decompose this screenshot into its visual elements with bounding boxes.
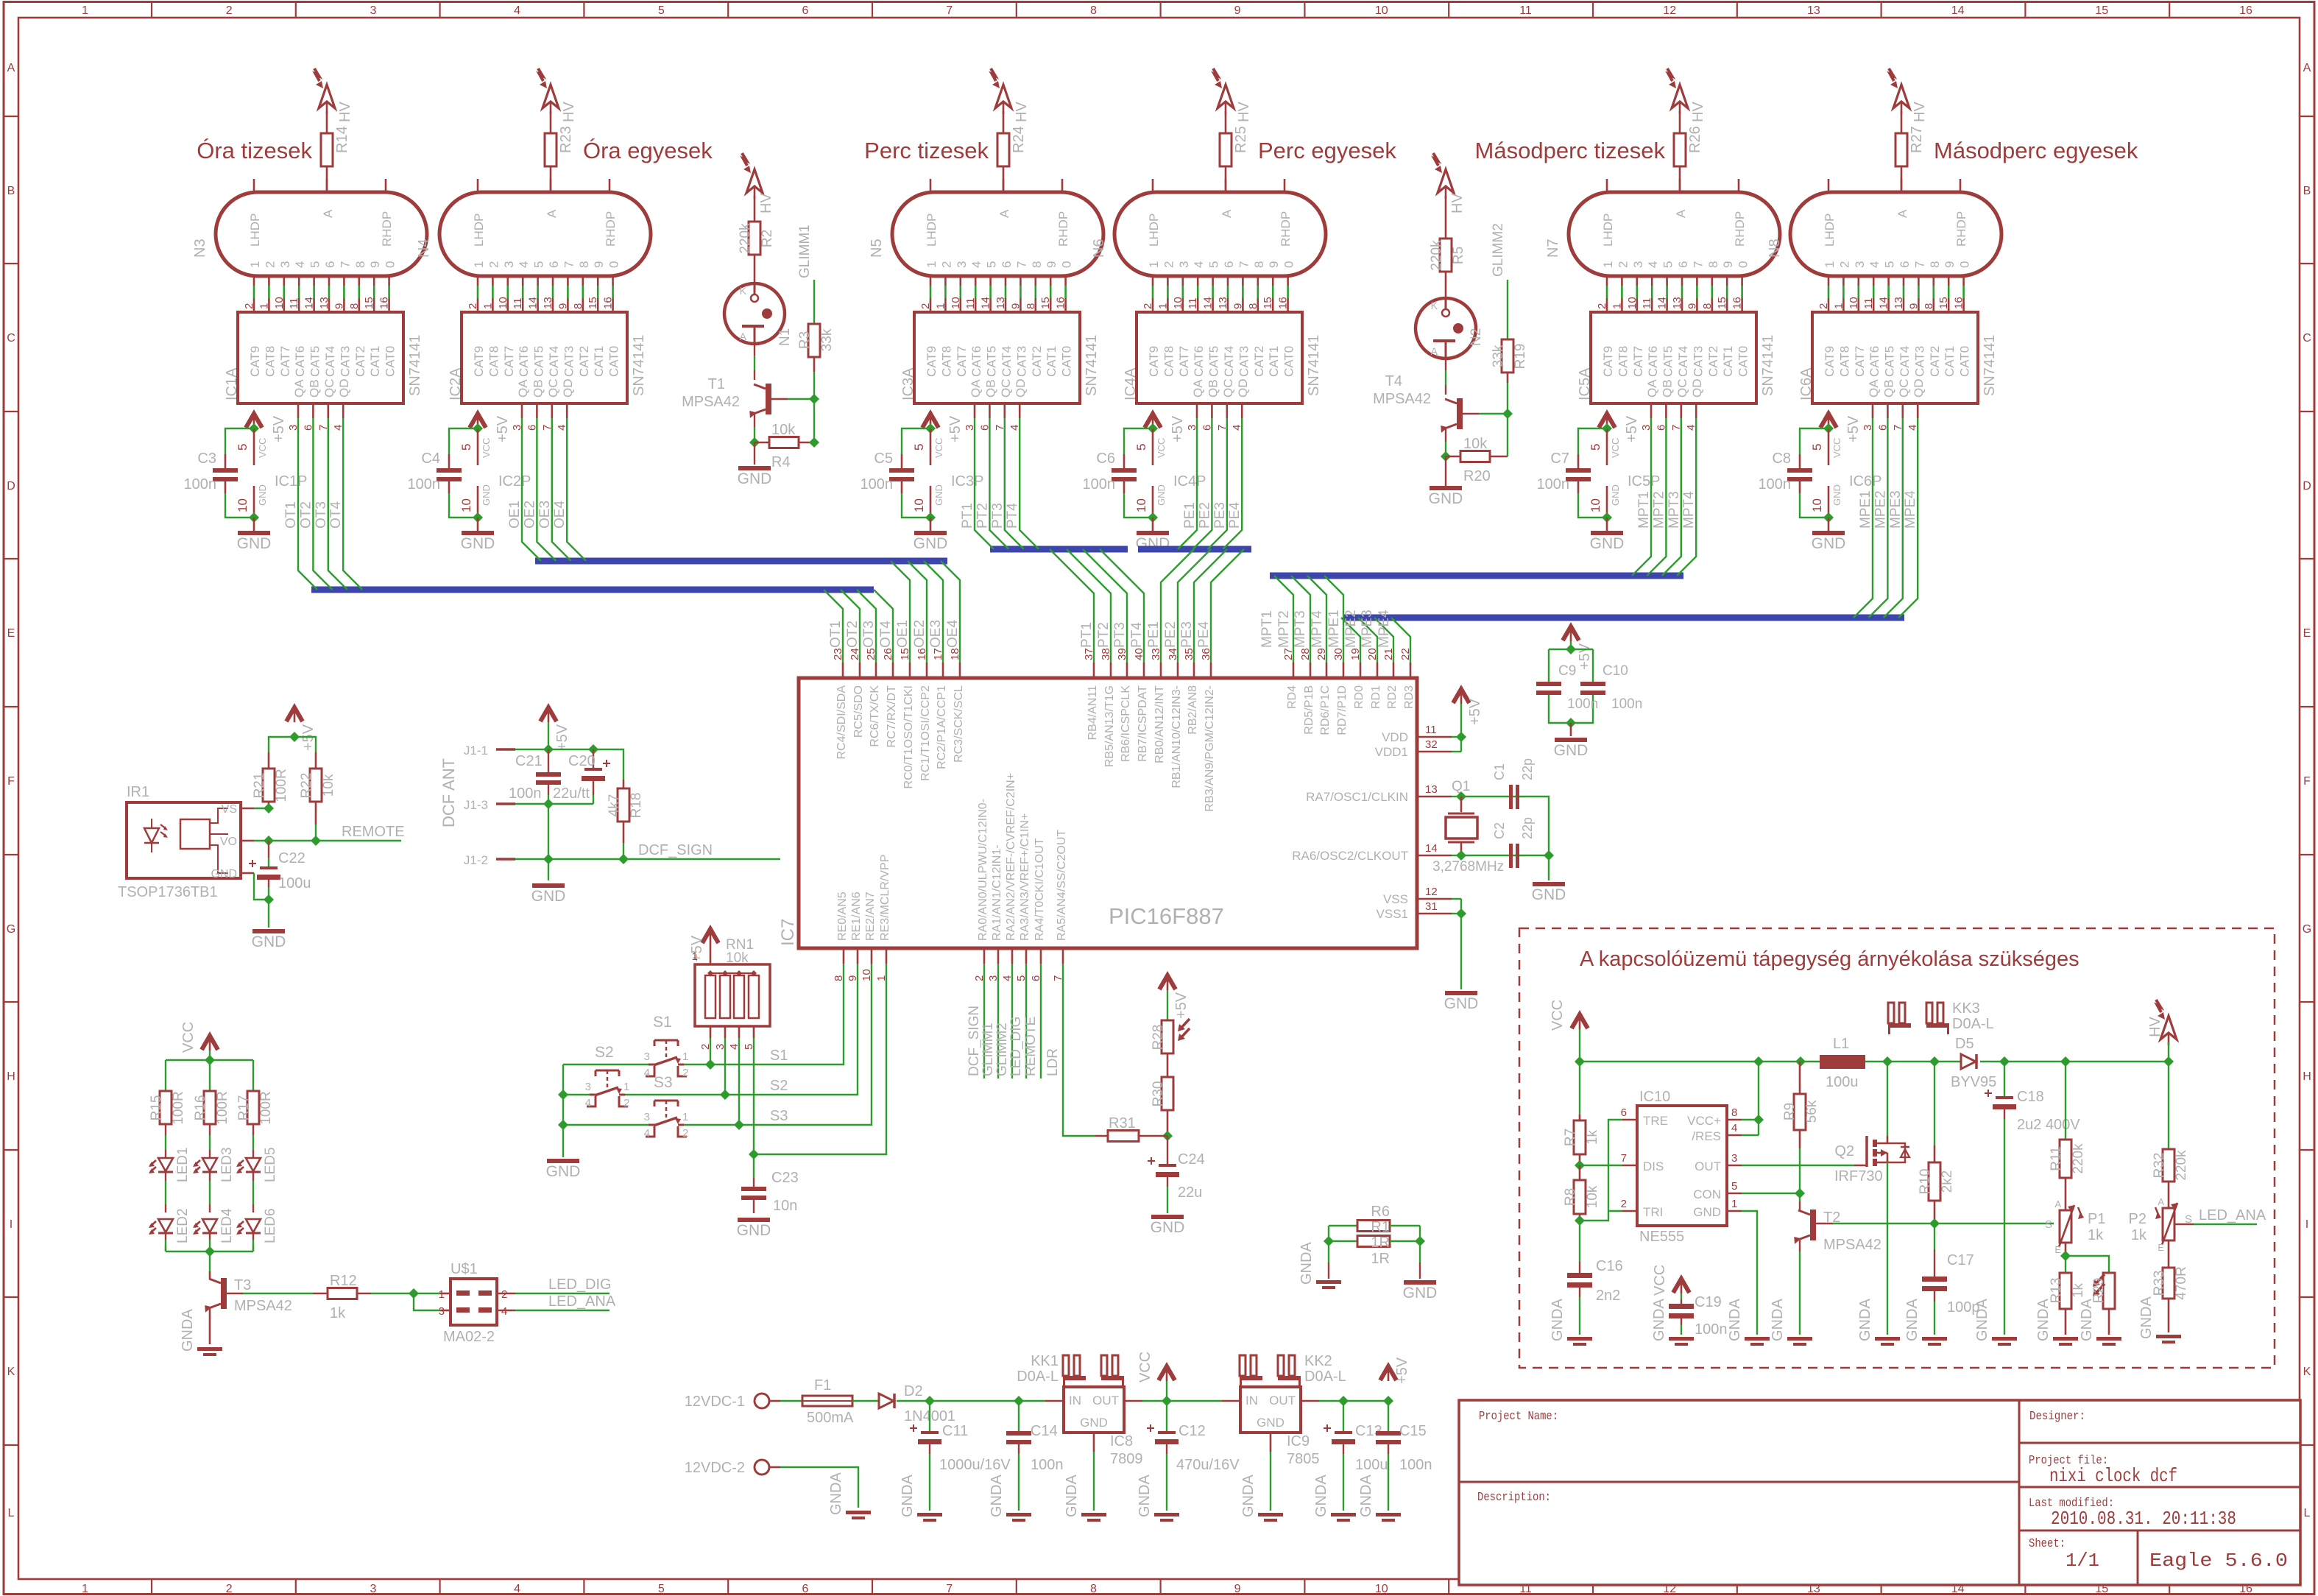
svg-text:PT3: PT3 — [1112, 622, 1128, 648]
svg-text:K: K — [1431, 300, 1438, 311]
svg-text:VCC: VCC — [1831, 438, 1842, 458]
svg-text:1: 1 — [1832, 303, 1845, 309]
ground GND below VSS — [1445, 991, 1477, 995]
svg-text:S2: S2 — [595, 1044, 614, 1061]
svg-text:33k: 33k — [819, 328, 835, 351]
svg-text:10k: 10k — [321, 774, 336, 797]
transistor T4 MPSA42 — [1457, 398, 1463, 429]
svg-text:1: 1 — [1731, 1198, 1737, 1210]
svg-text:G: G — [7, 923, 15, 936]
svg-text:MPT1: MPT1 — [1636, 491, 1652, 529]
ground GNDA below IC8 — [1081, 1513, 1106, 1516]
svg-text:N1: N1 — [777, 328, 793, 346]
ground GNDA below C13 — [1331, 1513, 1356, 1516]
svg-text:QB: QB — [1881, 379, 1895, 398]
svg-text:11: 11 — [1187, 297, 1199, 309]
svg-text:MPSA42: MPSA42 — [682, 394, 740, 410]
svg-text:OUT: OUT — [1092, 1394, 1119, 1408]
svg-text:LED3: LED3 — [219, 1147, 235, 1182]
svg-text:5: 5 — [532, 261, 546, 268]
svg-text:E: E — [2158, 1242, 2164, 1253]
svg-text:8: 8 — [1923, 303, 1935, 309]
ground GNDA below R29 — [2096, 1337, 2121, 1341]
svg-text:REMOTE: REMOTE — [342, 824, 405, 840]
svg-text:RD6/P1C: RD6/P1C — [1319, 685, 1332, 735]
svg-text:39: 39 — [1116, 648, 1128, 660]
wire OUT to Q2 gate — [1742, 1165, 1854, 1166]
svg-text:CAT5: CAT5 — [985, 346, 999, 377]
svg-text:R31: R31 — [1109, 1115, 1136, 1131]
svg-text:C: C — [2303, 332, 2311, 345]
svg-text:F: F — [7, 775, 15, 788]
svg-text:LED1: LED1 — [175, 1147, 191, 1182]
svg-text:C20: C20 — [568, 753, 596, 769]
svg-text:OUT: OUT — [1269, 1394, 1296, 1408]
LED LED3 — [209, 1124, 211, 1135]
svg-text:Q2: Q2 — [1834, 1143, 1854, 1159]
wire VDD to +5V — [1460, 704, 1462, 752]
wire C9 C10 rails — [1570, 641, 1572, 649]
svg-text:SN74141: SN74141 — [631, 335, 647, 396]
wire TRE TRI to R8 node — [1608, 1120, 1622, 1211]
svg-text:2: 2 — [1817, 303, 1830, 309]
svg-text:PT2: PT2 — [1096, 622, 1112, 648]
svg-text:IR1: IR1 — [127, 784, 149, 800]
svg-text:3: 3 — [502, 261, 516, 268]
power symbol HV (N6 anode) — [1218, 85, 1234, 108]
svg-text:CAT1: CAT1 — [1045, 346, 1059, 377]
svg-text:5: 5 — [658, 1583, 665, 1595]
svg-text:CAT0: CAT0 — [607, 346, 621, 377]
svg-text:10: 10 — [1172, 297, 1184, 309]
svg-text:Másodperc tizesek: Másodperc tizesek — [1475, 138, 1666, 163]
svg-text:RHDP: RHDP — [1056, 211, 1070, 247]
wire IC10 GND pin1 to GNDA — [1742, 1211, 1757, 1335]
svg-text:R28: R28 — [1151, 1025, 1166, 1051]
svg-text:10k: 10k — [726, 950, 749, 966]
svg-text:C17: C17 — [1947, 1252, 1974, 1268]
svg-text:VCC: VCC — [1137, 1352, 1153, 1383]
capacitor C4 100n — [449, 428, 478, 454]
svg-text:IN: IN — [1245, 1394, 1258, 1408]
nixie tube N7 — [1569, 192, 1780, 276]
tube N7 digit pins and wires to driver — [1606, 276, 1608, 286]
svg-text:100n: 100n — [509, 785, 542, 802]
svg-text:1: 1 — [682, 1051, 688, 1063]
svg-text:3: 3 — [1731, 1152, 1737, 1165]
svg-text:CAT8: CAT8 — [487, 346, 501, 377]
svg-text:2: 2 — [1142, 303, 1154, 309]
MOSFET Q2 IRF730 — [1865, 1136, 1868, 1167]
svg-text:16: 16 — [602, 297, 615, 309]
svg-text:13: 13 — [994, 297, 1007, 309]
svg-text:QD: QD — [561, 379, 575, 398]
svg-text:OE1: OE1 — [895, 620, 911, 648]
transistor T2 MPSA42 — [1810, 1210, 1816, 1240]
svg-text:5: 5 — [985, 261, 999, 268]
svg-text:QA: QA — [1867, 379, 1881, 398]
svg-text:PE3: PE3 — [1212, 502, 1228, 529]
svg-text:CAT2: CAT2 — [1030, 346, 1044, 377]
LED LED4 — [209, 1172, 211, 1181]
svg-text:2: 2 — [1621, 1198, 1627, 1210]
svg-text:5: 5 — [1589, 444, 1603, 451]
svg-text:9: 9 — [1943, 261, 1957, 268]
svg-text:RC3/SCK/SCL: RC3/SCK/SCL — [953, 685, 965, 763]
svg-text:A: A — [1895, 209, 1909, 218]
wire LED_DIG net — [497, 1293, 515, 1295]
svg-text:B: B — [7, 185, 15, 197]
svg-text:GLIMM2: GLIMM2 — [1491, 223, 1506, 277]
svg-text:CAT4: CAT4 — [1000, 346, 1014, 377]
resistor R17 100R — [247, 1091, 259, 1124]
svg-text:10k: 10k — [1463, 436, 1488, 452]
svg-text:RA1/AN1/C12IN1-: RA1/AN1/C12IN1- — [991, 844, 1003, 941]
svg-text:6: 6 — [547, 261, 561, 268]
svg-text:2: 2 — [1162, 261, 1176, 268]
svg-text:Perc tizesek: Perc tizesek — [864, 138, 989, 163]
svg-text:CAT7: CAT7 — [1177, 346, 1191, 377]
svg-text:PE2: PE2 — [1197, 502, 1212, 529]
svg-text:10: 10 — [236, 498, 250, 512]
svg-text:LED6: LED6 — [263, 1208, 278, 1243]
svg-text:+5V: +5V — [1577, 643, 1593, 670]
svg-text:7: 7 — [338, 261, 352, 268]
svg-text:100n: 100n — [1031, 1457, 1064, 1473]
svg-text:CAT7: CAT7 — [278, 346, 292, 377]
svg-text:CAT5: CAT5 — [532, 346, 546, 377]
RN1 bottom pins — [710, 1026, 712, 1038]
svg-text:9: 9 — [1721, 261, 1735, 268]
svg-text:R30: R30 — [1151, 1081, 1166, 1107]
svg-text:RA4/T0CKI/C1OUT: RA4/T0CKI/C1OUT — [1033, 838, 1046, 941]
svg-text:C18: C18 — [2017, 1089, 2044, 1105]
capacitor C12 470u/16V — [1166, 1401, 1167, 1431]
svg-text:SN74141: SN74141 — [407, 335, 423, 396]
svg-text:3: 3 — [1853, 261, 1867, 268]
svg-text:R21: R21 — [252, 773, 267, 799]
microcontroller IC7 PIC16F887 — [799, 678, 1417, 948]
tube N7 top pins LHDP/A/RHDP — [1606, 179, 1608, 192]
svg-text:OE2: OE2 — [522, 501, 537, 529]
svg-text:CAT0: CAT0 — [1060, 346, 1074, 377]
svg-text:CAT0: CAT0 — [1282, 346, 1296, 377]
driver IC IC4A SN74141 — [1137, 312, 1302, 403]
svg-text:CAT4: CAT4 — [1898, 346, 1912, 377]
svg-text:N7: N7 — [1545, 239, 1561, 258]
power symbol HV (N8 anode) — [1893, 85, 1909, 108]
svg-text:22u: 22u — [1178, 1184, 1202, 1201]
svg-text:PE1: PE1 — [1182, 502, 1198, 529]
svg-text:9: 9 — [1234, 4, 1241, 17]
svg-text:CAT6: CAT6 — [1868, 346, 1881, 377]
svg-text:R10: R10 — [1918, 1169, 1933, 1195]
svg-text:R20: R20 — [1463, 468, 1491, 484]
ground GND under IC2P — [473, 512, 483, 523]
svg-text:1: 1 — [925, 261, 939, 268]
svg-text:SN74141: SN74141 — [1084, 335, 1100, 396]
svg-text:1k: 1k — [1585, 1129, 1600, 1145]
svg-text:A: A — [545, 209, 559, 218]
svg-text:VCC: VCC — [481, 438, 492, 458]
svg-text:R8: R8 — [1563, 1188, 1578, 1206]
svg-text:8: 8 — [348, 303, 361, 309]
svg-text:RC2/P1A/CCP1: RC2/P1A/CCP1 — [936, 685, 948, 769]
driver IC IC6A SN74141 — [1812, 312, 1978, 403]
svg-text:CAT2: CAT2 — [1928, 346, 1942, 377]
timer IC10 NE555 — [1637, 1106, 1727, 1226]
svg-text:Perc egyesek: Perc egyesek — [1258, 138, 1396, 163]
svg-text:2: 2 — [467, 303, 479, 309]
resistor R18 4k7 — [623, 780, 625, 788]
svg-text:R3: R3 — [797, 331, 813, 349]
svg-text:VCC: VCC — [1610, 438, 1621, 458]
svg-text:6: 6 — [1000, 261, 1014, 268]
svg-text:R9: R9 — [1782, 1103, 1798, 1120]
svg-text:MPE1: MPE1 — [1326, 610, 1342, 648]
svg-text:PE3: PE3 — [1179, 621, 1195, 648]
wires PE1-PE4 from bus to PIC — [1161, 549, 1194, 663]
svg-text:LHDP: LHDP — [925, 213, 939, 247]
svg-text:GND: GND — [933, 484, 944, 506]
wire switch common rail — [562, 1064, 564, 1157]
ground GNDA at 12VDC-2 — [846, 1511, 871, 1514]
svg-text:C16: C16 — [1596, 1258, 1623, 1274]
svg-text:OT2: OT2 — [298, 501, 314, 529]
svg-text:A: A — [1674, 209, 1688, 218]
svg-text:QB: QB — [983, 379, 997, 398]
svg-text:100n: 100n — [1083, 476, 1116, 492]
svg-text:15: 15 — [363, 297, 375, 309]
svg-text:2: 2 — [487, 261, 501, 268]
svg-text:D2: D2 — [904, 1383, 923, 1399]
svg-text:SN74141: SN74141 — [1306, 335, 1322, 396]
driver IC4A output pins QA-QD — [1196, 403, 1198, 418]
svg-text:QA: QA — [1191, 379, 1205, 398]
wires PT1-PT4 from IC3A to bus — [975, 418, 994, 549]
svg-text:15: 15 — [587, 297, 599, 309]
svg-text:GND: GND — [1444, 995, 1479, 1012]
svg-text:QB: QB — [531, 379, 545, 398]
capacitor C14 100n — [1018, 1401, 1020, 1431]
svg-text:CAT8: CAT8 — [263, 346, 277, 377]
resistor R21 100R — [268, 752, 270, 769]
svg-text:11: 11 — [512, 297, 524, 309]
svg-text:QD: QD — [1236, 379, 1250, 398]
svg-text:8: 8 — [1928, 261, 1942, 268]
power pins IC6P with +5V and GND — [1820, 414, 1837, 428]
svg-text:PT3: PT3 — [990, 503, 1006, 529]
svg-text:GND: GND — [1590, 535, 1625, 552]
svg-text:0: 0 — [1282, 261, 1296, 268]
svg-text:220k: 220k — [738, 223, 753, 254]
svg-text:1: 1 — [1601, 261, 1615, 268]
svg-text:MPT4: MPT4 — [1310, 610, 1325, 648]
driver IC IC5A SN74141 — [1591, 312, 1756, 403]
ground GNDA below C19 — [1669, 1337, 1694, 1341]
svg-text:Másodperc egyesek: Másodperc egyesek — [1934, 138, 2138, 163]
svg-text:27: 27 — [1282, 648, 1295, 660]
svg-text:LHDP: LHDP — [472, 213, 486, 247]
svg-text:C5: C5 — [874, 451, 893, 467]
wire PSU top rail — [1580, 1061, 1820, 1062]
svg-text:9: 9 — [1686, 303, 1698, 309]
svg-text:D: D — [2303, 480, 2311, 492]
svg-text:CAT3: CAT3 — [1912, 346, 1926, 377]
svg-text:T3: T3 — [234, 1277, 251, 1293]
neon lamp N2 — [1416, 298, 1476, 359]
svg-text:33k: 33k — [1491, 345, 1506, 367]
resistor R23 220k anode — [550, 111, 552, 133]
svg-text:220k: 220k — [2174, 1150, 2189, 1181]
svg-text:LHDP: LHDP — [248, 213, 262, 247]
svg-text:GNDA: GNDA — [2138, 1296, 2155, 1339]
svg-text:14: 14 — [1425, 842, 1438, 855]
svg-text:11: 11 — [1641, 297, 1653, 309]
svg-text:QC: QC — [1897, 379, 1911, 398]
svg-text:8: 8 — [1030, 261, 1044, 268]
svg-text:C9: C9 — [1558, 663, 1576, 679]
resistor R16 100R — [204, 1091, 216, 1124]
driver IC3A output pins QA-QD — [974, 403, 976, 418]
power symbol HV (N3 anode) — [319, 85, 335, 108]
svg-text:100u: 100u — [1355, 1457, 1388, 1473]
svg-text:12: 12 — [1425, 886, 1438, 898]
svg-text:A: A — [997, 209, 1011, 218]
wire R12 to U$1 — [371, 1293, 414, 1294]
ground GND below C22 — [252, 929, 285, 933]
power VCC arrow — [1159, 1366, 1175, 1380]
svg-text:RHDP: RHDP — [380, 211, 394, 247]
svg-text:PT1: PT1 — [1079, 622, 1095, 648]
svg-text:17: 17 — [932, 648, 944, 660]
resistor R8 10k — [1579, 1165, 1581, 1180]
svg-text:Designer:: Designer: — [2029, 1410, 2085, 1424]
svg-text:9: 9 — [1232, 303, 1244, 309]
svg-text:N3: N3 — [192, 239, 208, 258]
svg-text:C: C — [7, 332, 15, 345]
svg-text:7: 7 — [1912, 261, 1926, 268]
svg-text:4: 4 — [514, 4, 520, 17]
LED LED1 — [165, 1124, 166, 1135]
wires MPT1-MPT4 from IC5A to bus — [1632, 418, 1651, 576]
nixie tube N3 — [216, 192, 427, 276]
svg-text:U$1: U$1 — [450, 1261, 478, 1277]
wire IC8 out to IC9 — [1142, 1400, 1222, 1402]
svg-text:QD: QD — [337, 379, 351, 398]
svg-text:10: 10 — [1626, 297, 1639, 309]
svg-text:RD7/P1D: RD7/P1D — [1336, 685, 1349, 735]
svg-text:10: 10 — [1589, 498, 1603, 512]
svg-text:H: H — [2303, 1070, 2311, 1083]
svg-text:HV: HV — [2147, 1016, 2163, 1037]
svg-text:6: 6 — [802, 4, 809, 17]
wires PT1-PT4 from bus to PIC — [1050, 549, 1094, 663]
svg-text:GND: GND — [211, 868, 237, 880]
svg-text:A: A — [7, 62, 15, 74]
ground GNDA below R13 — [2053, 1337, 2078, 1341]
svg-text:RE0/AN5: RE0/AN5 — [836, 891, 849, 941]
svg-text:RA6/OSC2/CLKOUT: RA6/OSC2/CLKOUT — [1292, 849, 1408, 863]
svg-text:KK3: KK3 — [1952, 1000, 1980, 1017]
resistor network RN1 10k — [695, 964, 770, 1026]
svg-text:14: 14 — [980, 297, 992, 309]
svg-text:CAT8: CAT8 — [1616, 346, 1630, 377]
svg-text:14: 14 — [1951, 4, 1965, 17]
svg-text:1: 1 — [82, 4, 88, 17]
svg-text:7809: 7809 — [1110, 1451, 1143, 1467]
capacitor C7 100n — [1578, 428, 1607, 454]
wire T2 emitter to GNDA — [1799, 1240, 1801, 1251]
ground GND under IC3P — [925, 512, 936, 523]
svg-text:1000u/16V: 1000u/16V — [939, 1457, 1011, 1473]
svg-text:5: 5 — [1810, 444, 1824, 451]
svg-text:RB4/AN11: RB4/AN11 — [1086, 685, 1099, 741]
trimmer P2 1k — [2163, 1208, 2174, 1240]
svg-text:5: 5 — [1731, 1180, 1737, 1193]
svg-text:+5V: +5V — [1170, 415, 1186, 442]
svg-text:RE1/AN6: RE1/AN6 — [850, 891, 863, 941]
svg-text:10: 10 — [497, 297, 509, 309]
resistor R10 2k2 — [1934, 1062, 1935, 1145]
svg-text:LED_ANA: LED_ANA — [548, 1293, 616, 1310]
svg-text:RA5/AN4/SS/C2OUT: RA5/AN4/SS/C2OUT — [1056, 830, 1068, 941]
svg-text:16: 16 — [1277, 297, 1290, 309]
svg-text:S3: S3 — [654, 1074, 673, 1091]
svg-text:8: 8 — [1090, 4, 1097, 17]
svg-text:14: 14 — [303, 297, 316, 309]
svg-text:10: 10 — [912, 498, 926, 512]
svg-text:HV: HV — [758, 193, 774, 213]
svg-text:CAT1: CAT1 — [592, 346, 606, 377]
svg-text:38: 38 — [1100, 648, 1112, 660]
capacitor C16 2n2 — [1579, 1262, 1580, 1273]
svg-text:GND: GND — [1403, 1285, 1438, 1302]
resistor R15 100R — [160, 1091, 172, 1124]
svg-text:7: 7 — [1621, 1152, 1627, 1165]
svg-text:R14: R14 — [334, 126, 350, 153]
svg-text:3: 3 — [644, 1111, 650, 1123]
svg-text:14: 14 — [1656, 297, 1669, 309]
wire P1 to R13 junction — [2065, 1243, 2067, 1256]
svg-text:21: 21 — [1382, 648, 1395, 660]
svg-text:GND: GND — [1257, 1416, 1285, 1430]
svg-text:3: 3 — [585, 1081, 591, 1093]
svg-text:1: 1 — [472, 261, 486, 268]
wire crystal caps to GND — [1519, 797, 1549, 880]
svg-text:L: L — [8, 1507, 15, 1519]
svg-text:S: S — [2045, 1218, 2052, 1231]
svg-text:+5V: +5V — [1624, 415, 1640, 442]
driver IC IC1A SN74141 — [238, 312, 403, 403]
wire DIS node — [1580, 1165, 1622, 1166]
wire CON to T2 collector — [1742, 1193, 1800, 1194]
svg-text:15: 15 — [899, 648, 911, 660]
svg-text:H: H — [7, 1070, 15, 1083]
svg-text:13: 13 — [318, 297, 331, 309]
svg-text:A: A — [1220, 209, 1234, 218]
shield box (dashed) — [1519, 928, 2275, 1368]
ground GNDA below T3 — [197, 1347, 222, 1351]
svg-text:I: I — [10, 1218, 13, 1231]
svg-text:MPSA42: MPSA42 — [1373, 391, 1431, 407]
svg-text:5: 5 — [459, 444, 473, 451]
svg-text:CAT8: CAT8 — [1837, 346, 1851, 377]
svg-text:13: 13 — [1807, 4, 1820, 17]
svg-text:16: 16 — [1055, 297, 1067, 309]
svg-text:+5V: +5V — [1467, 698, 1483, 725]
svg-text:+5V: +5V — [495, 415, 511, 442]
